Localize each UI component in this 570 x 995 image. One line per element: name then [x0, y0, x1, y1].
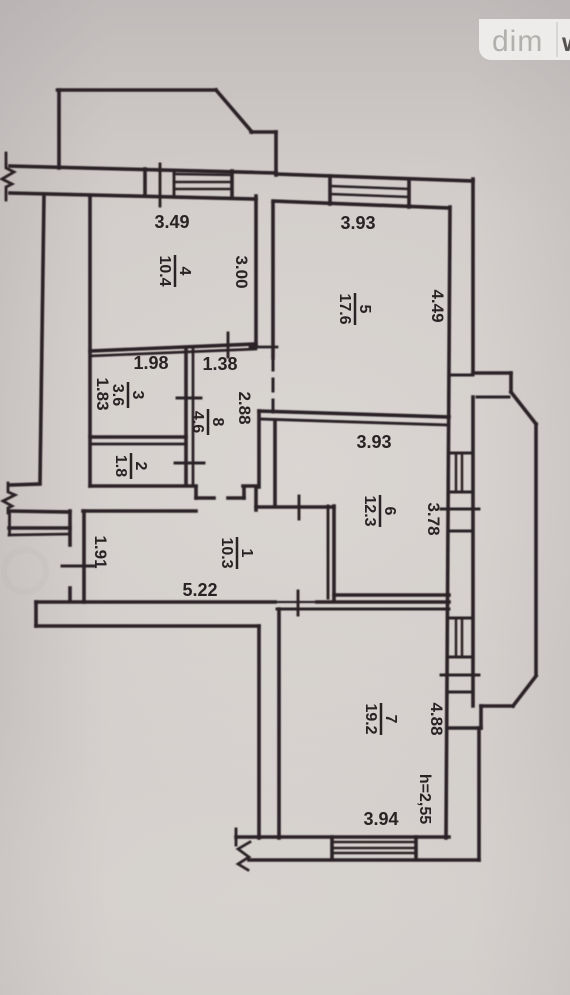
vestibule right wall upper	[68, 511, 72, 545]
dim 3.78 rotated	[424, 502, 443, 535]
window 3.93 glass line 2	[330, 194, 409, 197]
left outer wall	[40, 194, 44, 482]
corridor bottom outer line	[36, 624, 259, 628]
tick right wall upper	[441, 508, 479, 511]
room 7 bottom inner wall	[236, 835, 449, 839]
room 5 top outer line	[276, 174, 473, 181]
window 3.94 glass 2	[332, 852, 416, 854]
rooms 6-7 shared line right part	[317, 600, 449, 604]
rooms 2/3 wall line 1	[90, 435, 186, 439]
window right B sill	[449, 691, 473, 694]
hall 8 right wall east / room6 left wall	[273, 422, 277, 506]
room 4 left wall / bath left wall	[88, 196, 92, 486]
dim 2.88 rotated	[235, 391, 254, 424]
balcony top-left wall (left side)	[57, 90, 61, 168]
loggia east wall	[534, 424, 538, 675]
right outer wall upper	[471, 179, 475, 373]
dim 3.00 rotated	[232, 255, 251, 288]
entrance wall line 1	[9, 511, 70, 512]
window right B glass 2	[461, 618, 464, 657]
entrance door leaf	[9, 534, 70, 535]
entrance wall line 2	[9, 526, 70, 530]
rooms 5/6 wall line 1	[259, 411, 449, 417]
room 7 top inner line	[277, 608, 449, 611]
label room 5 : 17.6	[336, 293, 373, 325]
tick rooms4/5 wall	[250, 346, 277, 349]
loggia bottom wall	[481, 704, 513, 708]
room number/area labels, rotated	[109, 255, 399, 735]
window right A glass 1	[455, 453, 458, 492]
dim 4.88 rotated	[427, 702, 446, 735]
tick bath wall lower	[175, 462, 204, 465]
label room 2 : 1.8	[112, 453, 149, 479]
label room 4 : 10.4	[156, 255, 193, 287]
nook opening tick top	[298, 496, 301, 519]
window right A top	[449, 452, 473, 455]
loggia inner step line	[477, 396, 509, 399]
tick right wall lower	[441, 674, 479, 677]
loggia bottom step vertical	[479, 706, 483, 728]
hall8 bottom ledge left	[196, 496, 214, 500]
wall break symbol bottom	[238, 842, 250, 870]
room 7 right outer wall	[477, 728, 481, 860]
balcony step after diagonal	[251, 130, 276, 134]
cavity top connector	[449, 374, 473, 377]
room 7 bottom wall end tick	[235, 829, 238, 845]
bath3/hall8 wall east line	[192, 348, 195, 485]
loggia bottom step horizontal	[450, 726, 481, 730]
pier top	[243, 484, 258, 488]
window right B glass 1	[455, 618, 458, 657]
room 1 left wall	[82, 511, 86, 602]
loggia bottom diagonal	[513, 676, 536, 706]
window 3.49 right cell	[230, 171, 234, 198]
pier right vertical	[254, 487, 258, 510]
nook top wall	[256, 505, 334, 509]
left outer wall bottom jog	[9, 484, 40, 485]
window 3.93 right edge	[407, 179, 411, 207]
nook right wall west line	[327, 506, 330, 598]
label room 7 : 19.2	[362, 703, 399, 735]
room 5 left wall	[271, 203, 275, 358]
room 7 bottom outer wall	[249, 858, 479, 862]
window 3.94 glass 1	[332, 847, 416, 849]
dim 4.49 rotated	[428, 289, 447, 322]
label room 3 : 3.6	[109, 382, 146, 408]
window 3.94 box top	[332, 841, 416, 843]
hall8 bottom ledge right	[228, 496, 244, 500]
rooms 5/6 wall line 2	[259, 419, 449, 425]
room 2 / hall 8 bottom wall	[90, 484, 196, 488]
room 5/6/7 right inner wall	[446, 207, 450, 838]
balcony right wall	[274, 132, 278, 175]
window right A glass 2	[461, 453, 464, 492]
label room 6 : 12.3	[361, 495, 398, 527]
room 5 top inner wall	[273, 201, 449, 208]
room 7 door tick	[297, 591, 300, 615]
window 3.94 right edge	[414, 837, 418, 859]
window 3.49 left cell	[143, 169, 147, 196]
corridor top wall left segment	[83, 509, 196, 513]
top corridor wall upper line	[10, 166, 276, 173]
watermark dim	[479, 19, 570, 60]
window 3.49 cell divider	[173, 170, 176, 197]
window right B bottom	[449, 656, 473, 659]
corridor bottom / rooms 6-7 shared line	[36, 600, 275, 604]
room 4 / room 5 wall	[254, 196, 258, 345]
faint ghost circle stamp	[4, 550, 46, 592]
dim h=2.55 rotated	[416, 774, 433, 824]
vestibule door tick	[62, 565, 94, 568]
window right A bottom	[449, 491, 473, 494]
loggia west lower wall	[471, 397, 475, 706]
hall 8 right wall west	[257, 411, 261, 487]
label room 8 : 4.6	[189, 409, 226, 435]
window 3.49 box top	[174, 174, 232, 175]
window 3.49 glass line 2	[174, 188, 232, 191]
balcony top wall	[58, 88, 217, 92]
entrance left cap	[8, 511, 11, 535]
window 3.94 left edge	[330, 837, 334, 859]
window right A sill	[449, 530, 473, 533]
wall break symbol top-left	[2, 153, 14, 200]
dimension tick at window	[159, 164, 162, 206]
window 3.93 left edge	[328, 176, 332, 204]
top corridor wall lower line / room 4 top wall	[10, 193, 256, 199]
nook right wall east line	[332, 506, 336, 601]
balcony diagonal corner	[216, 90, 252, 132]
loggia top diagonal	[511, 392, 536, 424]
room 4 bottom wall line 1	[90, 344, 256, 351]
dim 1.83 rotated	[93, 377, 112, 410]
room 6 bottom inner line	[334, 593, 449, 597]
nook-room7 door stretch (thin)	[275, 601, 317, 603]
corridor bottom left cap	[34, 602, 38, 626]
room 7 left wall inner	[277, 609, 281, 838]
loggia top step vertical	[509, 373, 513, 392]
window 3.49 glass line 1	[174, 181, 232, 184]
window right B top	[449, 617, 473, 620]
tick dim 1.98/1.38	[227, 333, 230, 357]
tick bath wall upper	[177, 397, 201, 400]
vestibule right wall lower	[68, 588, 72, 601]
dashed opening room5 left	[272, 358, 275, 413]
window 3.93 glass line 1	[330, 186, 409, 189]
room 7 left wall outer	[257, 626, 261, 838]
bath3/hall8 wall west line	[184, 348, 188, 485]
loggia top step	[473, 371, 511, 375]
dim 1.91 rotated	[91, 535, 110, 568]
bath wall bottom corner	[194, 487, 198, 498]
rooms 2/3 wall line 2	[90, 443, 186, 446]
wall break symbol left-bottom	[3, 483, 15, 513]
pier left vertical	[242, 487, 246, 498]
label room 1 : 10.3	[218, 537, 255, 569]
room 4 bottom wall line 2	[90, 349, 256, 356]
